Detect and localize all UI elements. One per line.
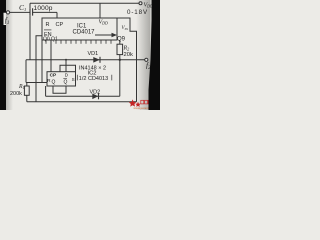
- svg-text:R: R: [46, 22, 50, 28]
- svg-text:CP: CP: [56, 22, 64, 28]
- svg-text:Q: Q: [64, 80, 68, 86]
- svg-text:VD1: VD1: [88, 51, 99, 57]
- svg-text:VSS: VSS: [122, 26, 129, 31]
- svg-text:1000p: 1000p: [34, 5, 53, 12]
- svg-text:VD2: VD2: [90, 89, 101, 95]
- svg-text:S: S: [72, 77, 75, 82]
- svg-text:Q: Q: [52, 80, 56, 86]
- svg-text:200k: 200k: [10, 91, 22, 97]
- svg-text:CP: CP: [50, 73, 57, 79]
- svg-text:VDD: VDD: [99, 20, 109, 26]
- svg-text:Q0 Q1: Q0 Q1: [43, 37, 58, 43]
- svg-text:0-18V: 0-18V: [127, 9, 148, 16]
- svg-text:CD4017: CD4017: [73, 29, 96, 35]
- svg-text:R1: R1: [18, 84, 25, 90]
- svg-text:R2: R2: [123, 46, 130, 52]
- svg-text:20k: 20k: [124, 52, 133, 58]
- svg-text:Q9: Q9: [117, 36, 126, 42]
- svg-text:1/2 CD4013: 1/2 CD4013: [79, 76, 108, 82]
